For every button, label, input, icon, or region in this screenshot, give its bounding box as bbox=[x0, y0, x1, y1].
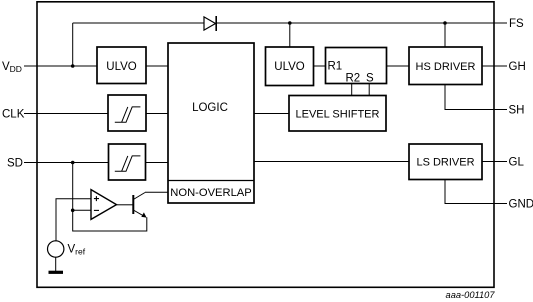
transistor Q1 (NPN) bbox=[133, 193, 146, 218]
junction top rail to ULVO2 bbox=[288, 21, 292, 25]
wire schmitt SD to LOGIC bbox=[146, 162, 169, 164]
wire HS driver bottom to SH pin bbox=[445, 85, 507, 110]
wire S stub bbox=[368, 84, 370, 96]
wire comparator minus input bbox=[73, 209, 91, 211]
wire CLK pin to schmitt bbox=[24, 113, 108, 115]
wire top rail (diode anode segment) bbox=[73, 22, 204, 24]
wire LS driver to GL pin bbox=[482, 161, 507, 163]
ground bbox=[49, 271, 64, 274]
wire LOGIC to LS driver bbox=[254, 161, 409, 163]
svg-text:ULVO: ULVO bbox=[106, 61, 137, 73]
svg-text:FS: FS bbox=[509, 18, 524, 30]
junction top rail to HS driver bbox=[443, 21, 447, 25]
svg-text:R1: R1 bbox=[328, 61, 343, 73]
block ULVO (left) bbox=[97, 47, 146, 84]
wire LS driver bottom to GND pin bbox=[445, 180, 507, 204]
junction comparator minus node bbox=[71, 209, 75, 213]
schmitt trigger CLK bbox=[108, 95, 146, 131]
block LS DRIVER bbox=[409, 144, 482, 180]
wire transistor emitter feedback to minus node bbox=[73, 210, 147, 231]
wire ULVO out to LOGIC bbox=[146, 65, 168, 67]
junction VDD node bbox=[71, 64, 75, 68]
wire schmitt CLK to LOGIC bbox=[146, 113, 168, 115]
wire ULVO2 to R1 bbox=[314, 65, 326, 67]
wire R1 block to HS driver bbox=[387, 65, 410, 67]
wire SD pin to schmitt bbox=[24, 162, 109, 164]
svg-text:GL: GL bbox=[509, 157, 525, 169]
svg-text:ULVO: ULVO bbox=[274, 61, 305, 73]
wire top rail (diode cathode to FS) bbox=[216, 22, 507, 24]
svg-text:NON-OVERLAP: NON-OVERLAP bbox=[170, 187, 251, 199]
svg-text:LOGIC: LOGIC bbox=[192, 102, 228, 114]
voltage source Vref bbox=[48, 241, 64, 257]
diode (bootstrap) bbox=[204, 16, 216, 31]
svg-text:LS DRIVER: LS DRIVER bbox=[416, 156, 474, 168]
svg-text:GH: GH bbox=[509, 61, 526, 73]
block LOGIC / NON-OVERLAP bbox=[168, 43, 254, 203]
svg-text:R2: R2 bbox=[346, 73, 361, 85]
svg-text:SD: SD bbox=[7, 158, 23, 170]
block HS DRIVER bbox=[409, 47, 482, 85]
wire VDD node up to bootstrap diode rail bbox=[72, 23, 74, 66]
wire HS driver to GH pin bbox=[482, 65, 507, 67]
svg-text:LEVEL SHIFTER: LEVEL SHIFTER bbox=[296, 108, 380, 120]
block LEVEL SHIFTER bbox=[289, 96, 386, 132]
wire Vref to ground bbox=[55, 257, 57, 271]
svg-text:CLK: CLK bbox=[2, 109, 25, 121]
wire SD node down to comparator minus bbox=[72, 163, 74, 211]
svg-text:HS DRIVER: HS DRIVER bbox=[416, 61, 476, 73]
schmitt trigger SD bbox=[109, 144, 146, 180]
block ULVO (right) bbox=[266, 47, 314, 86]
svg-text:GND: GND bbox=[509, 199, 533, 211]
svg-text:S: S bbox=[366, 73, 374, 85]
wire down to HS driver top bbox=[444, 23, 446, 47]
wire LOGIC to LEVEL SHIFTER bbox=[254, 113, 289, 115]
block flip-flop R1 R2 S bbox=[326, 48, 387, 85]
svg-text:SH: SH bbox=[509, 105, 525, 117]
svg-text:aaa-001107: aaa-001107 bbox=[446, 290, 496, 300]
wire R2 stub bbox=[351, 84, 353, 96]
op-amp comparator bbox=[91, 190, 117, 220]
junction SD node bbox=[71, 161, 75, 165]
wire comparator plus input from Vref bbox=[56, 199, 91, 241]
wire down to ULVO2 top bbox=[289, 23, 291, 47]
wire VDD pin to ULVO bbox=[24, 65, 97, 67]
wire transistor collector to NON-OVERLAP bbox=[145, 191, 168, 193]
wire comparator output to transistor base bbox=[117, 204, 133, 206]
